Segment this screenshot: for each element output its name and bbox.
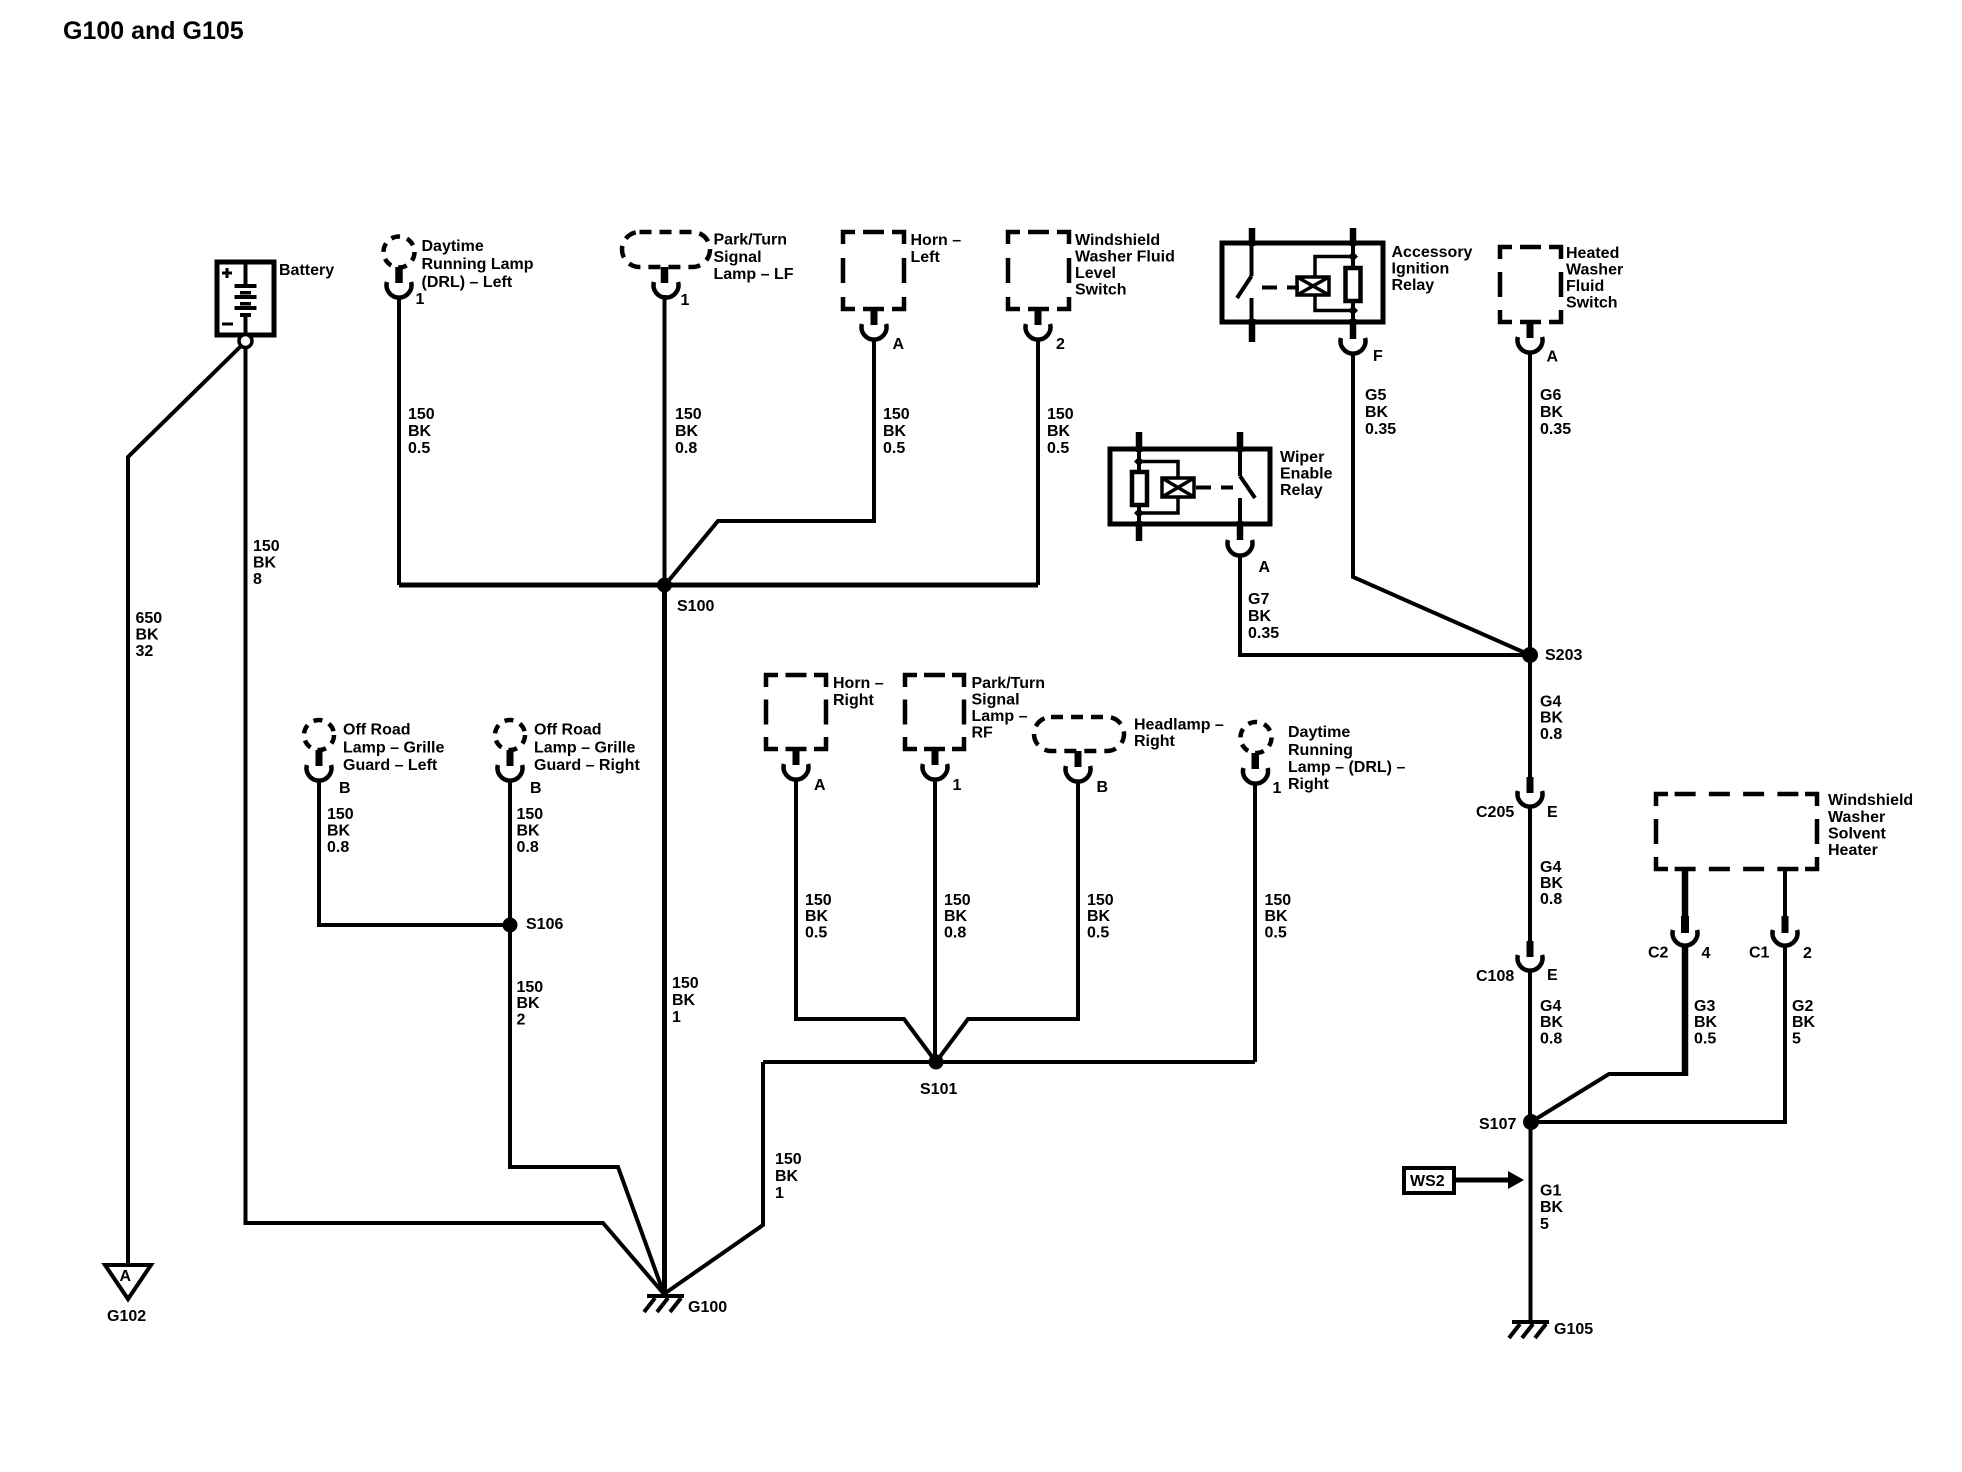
svg-text:Running: Running: [1288, 742, 1353, 759]
wire battery to G100 (150 BK 8): [246, 348, 665, 1295]
wire S100 horizontal bus: [399, 583, 1038, 588]
WS2 reference box with arrow: [1404, 1168, 1524, 1193]
svg-text:C108: C108: [1476, 968, 1514, 985]
svg-text:Solvent: Solvent: [1828, 826, 1886, 843]
svg-text:S100: S100: [677, 598, 714, 615]
svg-text:Switch: Switch: [1075, 282, 1127, 299]
svg-text:0.35: 0.35: [1248, 625, 1279, 642]
svg-text:S101: S101: [920, 1081, 957, 1098]
svg-text:E: E: [1547, 804, 1558, 821]
svg-text:Left: Left: [911, 249, 941, 266]
connector C205 pin E: [1476, 777, 1558, 821]
svg-text:0.5: 0.5: [1047, 440, 1069, 457]
wire horn right to S101 (150 BK 0.5): [796, 779, 936, 1062]
svg-text:150: 150: [408, 406, 435, 423]
svg-text:2: 2: [1803, 945, 1812, 962]
daytime running lamp (DRL) - right: [1241, 722, 1406, 793]
svg-text:G4: G4: [1540, 694, 1561, 711]
svg-text:150: 150: [327, 806, 354, 823]
svg-text:BK: BK: [1694, 1014, 1718, 1031]
svg-text:150: 150: [253, 538, 280, 555]
svg-text:A: A: [1547, 349, 1559, 366]
svg-text:1: 1: [672, 1009, 681, 1026]
svg-text:G4: G4: [1540, 998, 1561, 1015]
svg-text:G100: G100: [688, 1299, 727, 1316]
svg-text:G2: G2: [1792, 998, 1813, 1015]
connector C108 pin E: [1476, 941, 1558, 985]
svg-text:1: 1: [416, 291, 425, 308]
svg-text:Accessory: Accessory: [1392, 244, 1473, 261]
svg-text:0.8: 0.8: [1540, 891, 1562, 908]
svg-text:Washer: Washer: [1566, 262, 1623, 279]
svg-text:BK: BK: [1265, 908, 1289, 925]
svg-text:BK: BK: [1047, 423, 1071, 440]
svg-text:Washer Fluid: Washer Fluid: [1075, 249, 1175, 266]
svg-text:0.5: 0.5: [805, 925, 827, 942]
svg-text:C205: C205: [1476, 804, 1514, 821]
svg-text:Running Lamp: Running Lamp: [422, 256, 534, 273]
wire heated washer switch to S203 (G6 BK 0.35): [1530, 352, 1571, 655]
svg-text:G7: G7: [1248, 591, 1269, 608]
svg-text:Lamp – (DRL) –: Lamp – (DRL) –: [1288, 759, 1405, 776]
svg-text:G102: G102: [107, 1308, 146, 1325]
svg-text:Signal: Signal: [714, 249, 762, 266]
svg-text:BK: BK: [517, 995, 541, 1012]
svg-text:Wiper: Wiper: [1280, 449, 1324, 466]
svg-text:B: B: [339, 780, 351, 797]
svg-text:Relay: Relay: [1392, 277, 1435, 294]
svg-text:B: B: [530, 780, 542, 797]
svg-text:Lamp –: Lamp –: [972, 708, 1028, 725]
node S107: [1479, 1114, 1539, 1133]
svg-text:0.8: 0.8: [1540, 1031, 1562, 1048]
svg-text:C2: C2: [1648, 945, 1669, 962]
svg-text:BK: BK: [408, 423, 432, 440]
svg-text:150: 150: [883, 406, 910, 423]
svg-text:G1: G1: [1540, 1183, 1561, 1200]
svg-text:S203: S203: [1545, 647, 1582, 664]
svg-text:BK: BK: [883, 423, 907, 440]
svg-text:S107: S107: [1479, 1116, 1516, 1133]
park/turn signal lamp - RF: [905, 675, 1045, 780]
svg-text:Lamp – LF: Lamp – LF: [714, 266, 794, 283]
wire DRL left to S100 (150 BK 0.5): [399, 297, 435, 585]
svg-text:BK: BK: [327, 823, 351, 840]
svg-text:Guard – Right: Guard – Right: [534, 757, 640, 774]
windshield washer fluid level switch: [1008, 232, 1175, 340]
svg-text:2: 2: [517, 1012, 526, 1029]
wire park/turn LF to S100 (150 BK 0.8): [665, 295, 702, 585]
svg-text:Enable: Enable: [1280, 466, 1333, 483]
svg-text:Right: Right: [833, 692, 875, 709]
svg-text:E: E: [1547, 967, 1558, 984]
svg-text:Windshield: Windshield: [1075, 232, 1160, 249]
svg-text:A: A: [1259, 559, 1271, 576]
svg-text:BK: BK: [805, 908, 829, 925]
ground G102: [105, 1265, 151, 1325]
svg-text:2: 2: [1056, 336, 1065, 353]
svg-text:Park/Turn: Park/Turn: [972, 675, 1046, 692]
svg-text:BK: BK: [1365, 404, 1389, 421]
svg-text:BK: BK: [1540, 1014, 1564, 1031]
svg-text:0.5: 0.5: [1265, 925, 1287, 942]
svg-text:Signal: Signal: [972, 692, 1020, 709]
svg-text:Horn –: Horn –: [833, 675, 884, 692]
off road lamp - grille guard - left: [304, 720, 444, 781]
svg-text:650: 650: [136, 610, 163, 627]
daytime running lamp (DRL) - left: [384, 237, 534, 298]
svg-text:Daytime: Daytime: [1288, 724, 1350, 741]
node S101: [920, 1055, 957, 1099]
battery B: [217, 262, 334, 348]
svg-text:G105: G105: [1554, 1321, 1593, 1338]
svg-text:WS2: WS2: [1410, 1173, 1445, 1190]
svg-text:1: 1: [775, 1185, 784, 1202]
svg-text:32: 32: [136, 643, 154, 660]
wire C2 to S107 (G3 BK 0.5): [1531, 945, 1718, 1122]
wire off road lamp right to S106 (150 BK 0.8): [510, 780, 543, 925]
wire horn left to S100 (150 BK 0.5): [665, 339, 910, 585]
svg-text:BK: BK: [775, 1168, 799, 1185]
svg-text:BK: BK: [1540, 875, 1564, 892]
wire park/turn RF to S101 (150 BK 0.8): [935, 779, 971, 1062]
svg-text:Relay: Relay: [1280, 482, 1323, 499]
wire C1 to S107 (G2 BK 5): [1531, 945, 1816, 1122]
svg-text:0.5: 0.5: [883, 440, 905, 457]
node S203: [1522, 647, 1582, 664]
wire S101 to G100 (150 BK 1): [664, 1062, 802, 1294]
svg-text:Washer: Washer: [1828, 809, 1885, 826]
svg-text:Lamp – Grille: Lamp – Grille: [534, 740, 635, 757]
svg-text:0.8: 0.8: [675, 440, 697, 457]
svg-text:0.8: 0.8: [517, 839, 539, 856]
wire S107 to G105 (G1 BK 5): [1531, 1122, 1564, 1320]
ground G105: [1509, 1321, 1593, 1338]
svg-text:0.8: 0.8: [327, 839, 349, 856]
heated washer fluid switch: [1500, 245, 1623, 353]
svg-text:150: 150: [672, 975, 699, 992]
wire headlamp right to S101 (150 BK 0.5): [936, 781, 1114, 1062]
svg-text:G5: G5: [1365, 387, 1386, 404]
svg-text:Off Road: Off Road: [343, 722, 411, 739]
wire S100 to G100 (150 BK 1): [665, 585, 699, 1294]
svg-text:BK: BK: [672, 992, 696, 1009]
ground G100: [644, 1296, 727, 1316]
svg-text:Windshield: Windshield: [1828, 792, 1913, 809]
relay K2 wiper enable relay: [1110, 432, 1333, 556]
svg-text:Heater: Heater: [1828, 842, 1878, 859]
wire washer fluid level switch to S100 (150 BK 0.5): [1038, 339, 1074, 585]
svg-text:BK: BK: [944, 908, 968, 925]
svg-text:BK: BK: [136, 627, 160, 644]
svg-text:150: 150: [1047, 406, 1074, 423]
svg-text:Switch: Switch: [1566, 295, 1618, 312]
wire S101 horizontal bus: [763, 1060, 1255, 1064]
svg-text:BK: BK: [1087, 908, 1111, 925]
svg-text:0.35: 0.35: [1540, 421, 1571, 438]
svg-text:Right: Right: [1288, 776, 1330, 793]
svg-text:150: 150: [517, 806, 544, 823]
svg-text:1: 1: [681, 292, 690, 309]
svg-text:150: 150: [805, 892, 832, 909]
svg-text:0.35: 0.35: [1365, 421, 1396, 438]
wire accessory relay to S203 (G5 BK 0.35): [1353, 353, 1530, 655]
wire DRL right to S101 (150 BK 0.5): [1255, 783, 1291, 1062]
svg-text:Off Road: Off Road: [534, 722, 602, 739]
svg-text:0.5: 0.5: [1694, 1031, 1716, 1048]
horn - right: [766, 675, 884, 780]
svg-text:0.5: 0.5: [408, 440, 430, 457]
svg-text:G3: G3: [1694, 998, 1715, 1015]
svg-text:BK: BK: [1792, 1014, 1816, 1031]
svg-text:G6: G6: [1540, 387, 1561, 404]
off road lamp - grille guard - right: [495, 720, 640, 781]
svg-text:G100 and G105: G100 and G105: [63, 17, 244, 45]
svg-text:BK: BK: [1540, 1199, 1564, 1216]
svg-text:150: 150: [775, 1151, 802, 1168]
svg-text:A: A: [893, 336, 905, 353]
svg-text:S106: S106: [526, 916, 563, 933]
svg-text:150: 150: [517, 979, 544, 996]
svg-text:Horn –: Horn –: [911, 232, 962, 249]
svg-text:150: 150: [675, 406, 702, 423]
connector C1 pin 2 of solvent heater: [1749, 869, 1812, 962]
svg-text:Level: Level: [1075, 265, 1116, 282]
svg-text:BK: BK: [1540, 404, 1564, 421]
svg-text:0.8: 0.8: [1540, 726, 1562, 743]
node S100: [657, 578, 714, 616]
svg-text:Park/Turn: Park/Turn: [714, 232, 788, 249]
wire off road lamp left to S106 (150 BK 0.8): [319, 780, 510, 925]
svg-text:Fluid: Fluid: [1566, 278, 1604, 295]
svg-text:Right: Right: [1134, 733, 1176, 750]
svg-text:A: A: [814, 777, 826, 794]
svg-text:BK: BK: [675, 423, 699, 440]
svg-text:5: 5: [1540, 1216, 1549, 1233]
windshield washer solvent heater: [1656, 792, 1913, 869]
svg-text:0.5: 0.5: [1087, 925, 1109, 942]
node S106: [503, 916, 564, 933]
svg-text:1: 1: [953, 777, 962, 794]
svg-text:1: 1: [1273, 780, 1282, 797]
headlamp - right: [1034, 717, 1224, 782]
svg-text:150: 150: [944, 892, 971, 909]
svg-text:Battery: Battery: [279, 262, 334, 279]
svg-text:BK: BK: [1248, 608, 1272, 625]
svg-text:Headlamp –: Headlamp –: [1134, 717, 1224, 734]
wire C205 to C108 (G4 BK 0.8): [1530, 806, 1564, 941]
connector C2 pin 4 of solvent heater: [1648, 869, 1711, 962]
svg-text:5: 5: [1792, 1031, 1801, 1048]
svg-text:(DRL) – Left: (DRL) – Left: [422, 274, 513, 291]
svg-text:Lamp – Grille: Lamp – Grille: [343, 740, 444, 757]
svg-text:A: A: [120, 1268, 132, 1285]
svg-text:F: F: [1373, 348, 1383, 365]
svg-text:150: 150: [1265, 892, 1292, 909]
svg-text:BK: BK: [1540, 710, 1564, 727]
svg-text:Heated: Heated: [1566, 245, 1619, 262]
svg-text:BK: BK: [253, 555, 277, 572]
svg-text:150: 150: [1087, 892, 1114, 909]
horn - left: [843, 232, 961, 340]
svg-text:4: 4: [1702, 945, 1711, 962]
wire S106 to G100 (150 BK 2): [510, 925, 664, 1294]
wire battery negative to G102 (650 BK 32): [128, 346, 241, 1265]
svg-text:C1: C1: [1749, 945, 1770, 962]
svg-text:B: B: [1097, 779, 1109, 796]
svg-text:Daytime: Daytime: [422, 238, 484, 255]
wire C108 to S107 (G4 BK 0.8): [1530, 970, 1564, 1122]
svg-text:G4: G4: [1540, 859, 1561, 876]
svg-text:RF: RF: [972, 725, 994, 742]
svg-text:Guard – Left: Guard – Left: [343, 757, 438, 774]
relay K1 accessory ignition relay: [1222, 228, 1473, 354]
svg-text:0.8: 0.8: [944, 925, 966, 942]
svg-text:8: 8: [253, 571, 262, 588]
svg-text:BK: BK: [517, 823, 541, 840]
wire S203 to C205 (G4 BK 0.8): [1530, 655, 1564, 777]
wire wiper relay to S203 (G7 BK 0.35): [1240, 555, 1530, 655]
park/turn signal lamp - LF: [622, 232, 794, 298]
svg-text:Ignition: Ignition: [1392, 261, 1450, 278]
